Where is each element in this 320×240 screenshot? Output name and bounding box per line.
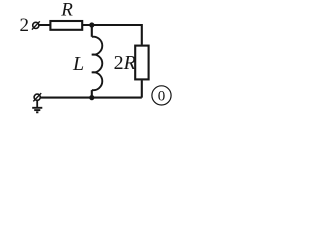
svg-text:R: R xyxy=(60,0,73,21)
svg-text:2: 2 xyxy=(20,15,30,36)
svg-text:L: L xyxy=(72,53,84,75)
svg-text:2R: 2R xyxy=(114,52,136,74)
svg-text:0: 0 xyxy=(158,88,166,104)
